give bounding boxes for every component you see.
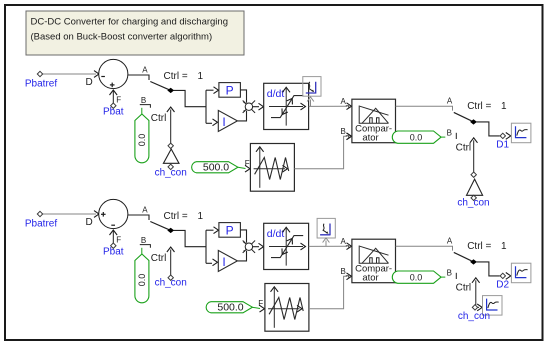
svg-text:0.0: 0.0 bbox=[410, 272, 423, 282]
svg-text:d/dt: d/dt bbox=[267, 228, 285, 240]
svg-text:F: F bbox=[116, 96, 121, 105]
svg-text:D: D bbox=[86, 77, 93, 88]
svg-text:Ctrl: Ctrl bbox=[151, 253, 167, 264]
svg-text:A: A bbox=[447, 97, 453, 106]
svg-text:A: A bbox=[142, 66, 148, 75]
svg-text:(Based on Buck-Boost converter: (Based on Buck-Boost converter algorithm… bbox=[31, 32, 213, 43]
svg-text:DC-DC Converter for charging a: DC-DC Converter for charging and dischar… bbox=[31, 17, 228, 28]
svg-text:1: 1 bbox=[198, 211, 204, 222]
svg-text:Ctrl =: Ctrl = bbox=[467, 101, 491, 112]
svg-text:B: B bbox=[141, 96, 146, 105]
svg-text:ch_con: ch_con bbox=[155, 167, 187, 178]
svg-text:Ctrl =: Ctrl = bbox=[467, 241, 491, 252]
svg-text:I: I bbox=[222, 255, 225, 269]
svg-text:Ctrl: Ctrl bbox=[456, 143, 472, 154]
svg-text:D1: D1 bbox=[496, 139, 509, 150]
svg-text:1: 1 bbox=[198, 71, 204, 82]
svg-text:0.0: 0.0 bbox=[137, 274, 147, 287]
svg-text:1: 1 bbox=[501, 241, 507, 252]
svg-text:P: P bbox=[226, 223, 234, 237]
svg-text:1: 1 bbox=[501, 101, 507, 112]
svg-text:d/dt: d/dt bbox=[267, 88, 285, 100]
svg-text:ator: ator bbox=[362, 272, 378, 283]
svg-text:B: B bbox=[447, 129, 452, 138]
svg-text:0.0: 0.0 bbox=[137, 134, 147, 147]
svg-text:B: B bbox=[341, 267, 346, 276]
svg-text:I: I bbox=[222, 115, 225, 129]
svg-text:ator: ator bbox=[362, 132, 378, 143]
svg-text:ch_con: ch_con bbox=[458, 311, 490, 322]
svg-text:F: F bbox=[116, 236, 121, 245]
svg-text:Ctrl =: Ctrl = bbox=[164, 211, 188, 222]
svg-text:Ctrl: Ctrl bbox=[456, 283, 472, 294]
svg-text:D2: D2 bbox=[496, 279, 509, 290]
svg-text:500.0: 500.0 bbox=[217, 302, 243, 314]
svg-text:Pbatref: Pbatref bbox=[25, 79, 57, 90]
svg-text:A: A bbox=[142, 206, 148, 215]
svg-text:Pbat: Pbat bbox=[103, 107, 124, 118]
svg-text:0.0: 0.0 bbox=[410, 132, 423, 142]
svg-text:P: P bbox=[226, 83, 234, 97]
svg-text:ch_con: ch_con bbox=[457, 198, 489, 209]
svg-text:B: B bbox=[141, 236, 146, 245]
svg-text:Pbatref: Pbatref bbox=[25, 219, 57, 230]
svg-text:D: D bbox=[86, 217, 93, 228]
svg-text:Ctrl =: Ctrl = bbox=[164, 71, 188, 82]
svg-text:A: A bbox=[341, 97, 347, 106]
svg-text:B: B bbox=[341, 127, 346, 136]
svg-text:B: B bbox=[447, 269, 452, 278]
svg-text:A: A bbox=[447, 237, 453, 246]
svg-text:A: A bbox=[341, 237, 347, 246]
svg-text:500.0: 500.0 bbox=[203, 162, 229, 174]
svg-text:Pbat: Pbat bbox=[103, 247, 124, 258]
svg-text:ch_con: ch_con bbox=[155, 278, 187, 289]
svg-text:Ctrl: Ctrl bbox=[151, 113, 167, 124]
